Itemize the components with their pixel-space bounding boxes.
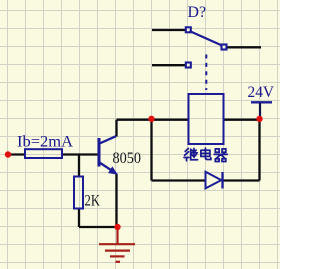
relay K1 body	[189, 94, 224, 144]
svg-text:2K: 2K	[85, 193, 101, 210]
label 继电器 (relay) hand-drawn glyphs	[184, 148, 227, 161]
junction: collector rail / relay-diode branch	[148, 116, 154, 122]
wire: bottom ground rail	[79, 226, 118, 228]
svg-text:24V: 24V	[248, 84, 275, 101]
wire: emitter vertical	[115, 174, 117, 228]
wire: 2K resistor bottom to ground rail	[78, 208, 80, 227]
svg-text:Ib=2mA: Ib=2mA	[17, 134, 74, 151]
wire: base wire left of R1	[8, 153, 25, 155]
power 24V bar	[251, 101, 272, 103]
diode D1	[206, 172, 222, 189]
resistor 2K body	[74, 177, 83, 209]
wire: base wire R1 to transistor base	[62, 153, 98, 155]
wire: switch lower-left lead	[152, 64, 186, 66]
switch blade diagonal	[190, 31, 223, 46]
wire: switch upper-left lead	[152, 29, 186, 31]
node: input terminal Ib	[5, 151, 11, 157]
junction: emitter / ground rail	[114, 224, 120, 230]
wire: left branch vertical to diode line	[150, 120, 152, 181]
wire: collector vertical	[115, 120, 117, 137]
svg-text:8050: 8050	[113, 150, 142, 167]
power 24V stem	[259, 103, 261, 120]
wire: diode branch left segment	[152, 179, 206, 181]
wire: top rail collector to relay	[117, 119, 189, 121]
wire: diode branch right segment	[223, 179, 260, 181]
继	[184, 148, 189, 160]
svg-text:D?: D?	[188, 4, 207, 21]
switch linkage dashed line	[205, 55, 207, 91]
transistor Q1 8050	[99, 136, 117, 174]
junction: 24V rail / relay-diode branch	[256, 116, 262, 122]
wire: right branch vertical to diode line	[258, 120, 260, 181]
wire: drop to 2K resistor top	[78, 155, 80, 177]
wire: switch right lead	[228, 46, 262, 48]
resistor R1 body	[25, 149, 62, 158]
器	[214, 149, 227, 162]
wire: top rail relay to 24V column	[224, 119, 260, 121]
电	[201, 148, 211, 159]
switch D? contact squares	[186, 27, 227, 67]
ground symbol	[99, 227, 135, 262]
